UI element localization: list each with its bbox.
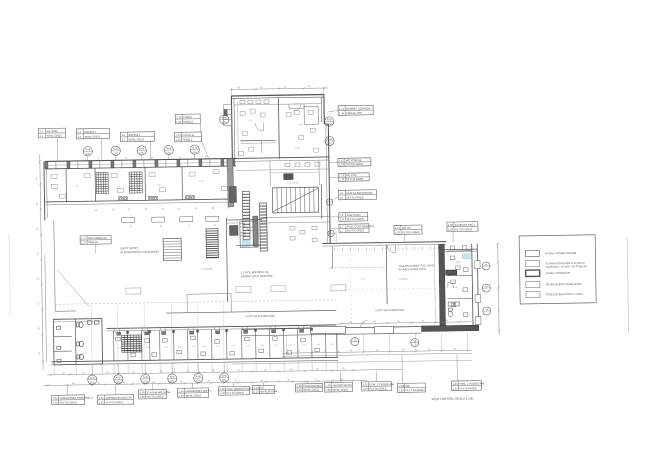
svg-text:1.7: 1.7 bbox=[340, 225, 344, 229]
door arc right wing bbox=[387, 245, 395, 253]
svg-text:(25): (25) bbox=[222, 121, 227, 124]
svg-text:KG: KG bbox=[260, 386, 264, 390]
svg-text:1.8: 1.8 bbox=[340, 217, 344, 221]
room number labels left wing bbox=[53, 117, 461, 295]
leader 1.23 bbox=[456, 354, 458, 381]
hall west wall bbox=[54, 220, 55, 311]
callout 1.5 bbox=[120, 132, 154, 142]
grid marker top 4 bbox=[164, 145, 173, 154]
svg-text:SALA OBSŁUGI: SALA OBSŁUGI bbox=[88, 236, 107, 240]
svg-text:N+B: N+B bbox=[116, 376, 121, 379]
svg-text:SIENNA x: SIENNA x bbox=[84, 130, 96, 134]
svg-text:(25): (25) bbox=[167, 151, 172, 154]
leader 1.19 bbox=[191, 383, 193, 388]
corridor north wall bbox=[166, 310, 336, 313]
vestibule bbox=[187, 294, 231, 313]
svg-text:1.8: 1.8 bbox=[340, 213, 344, 217]
legend row 3 bbox=[526, 270, 540, 277]
node circle hall bbox=[326, 199, 332, 205]
svg-text:1.5: 1.5 bbox=[122, 138, 126, 142]
window opening 1 bbox=[311, 326, 346, 334]
west stub wall right wing bbox=[331, 246, 333, 268]
svg-text:GABINET LEKARZA: GABINET LEKARZA bbox=[346, 106, 370, 110]
cyan highlight right bbox=[462, 254, 470, 259]
grid marker bottom 5 bbox=[194, 373, 203, 382]
svg-text:WC: WC bbox=[405, 384, 410, 388]
svg-text:(25): (25) bbox=[90, 381, 95, 384]
svg-text:WYKŁADZINA: WYKŁADZINA bbox=[260, 389, 277, 393]
grid marker bottom 1 bbox=[88, 375, 97, 384]
radiator row numbers bbox=[130, 225, 217, 228]
partition droppers bbox=[54, 361, 337, 375]
leader 1.15 bbox=[403, 234, 405, 242]
callout 1.12 bbox=[175, 114, 200, 124]
svg-text:WC POKOJE: WC POKOJE bbox=[346, 158, 362, 162]
svg-text:1.12: 1.12 bbox=[176, 120, 182, 124]
door arc bbox=[142, 328, 148, 334]
svg-text:N+B: N+B bbox=[327, 118, 332, 121]
bottom dimension line 1 bbox=[47, 369, 402, 375]
leader 1.17 bbox=[94, 244, 96, 253]
callout 1.30 bbox=[138, 389, 170, 399]
bottom band fixtures bbox=[116, 334, 320, 357]
stair core walls bbox=[253, 216, 258, 246]
svg-text:WYKŁ GRES: WYKŁ GRES bbox=[186, 393, 202, 397]
small rooms right bbox=[304, 106, 318, 124]
dark fixtures top of rooms bbox=[117, 329, 334, 335]
leader 1.32 bbox=[66, 385, 68, 395]
leader 1.9 bbox=[332, 197, 338, 200]
leader 1.17a bbox=[262, 382, 264, 385]
legend row 2 bbox=[525, 260, 539, 267]
callout 1.10b bbox=[338, 173, 369, 181]
leader 1.26 bbox=[339, 372, 341, 382]
left dimension line bbox=[40, 155, 43, 370]
door jambs bottom band bbox=[126, 328, 312, 334]
right wing lower dims bbox=[282, 350, 472, 353]
tiny dim numbers row in rooms bbox=[95, 208, 231, 212]
svg-text:(25): (25) bbox=[116, 381, 121, 384]
NE block east wall bbox=[472, 244, 473, 331]
grid circle east 3 bbox=[483, 307, 491, 315]
callout 1.24 bbox=[295, 384, 322, 392]
door arc NE bbox=[448, 282, 454, 288]
wall post bbox=[199, 159, 202, 166]
dark hatch block core bbox=[206, 229, 218, 258]
svg-text:W KONSTRUKCJI STALOWEJ: W KONSTRUKCJI STALOWEJ bbox=[120, 250, 159, 255]
svg-text:WYKŁ GRES: WYKŁ GRES bbox=[332, 388, 348, 392]
svg-text:1.25: 1.25 bbox=[362, 387, 368, 391]
svg-text:1.17: 1.17 bbox=[81, 240, 87, 244]
svg-text:1.16: 1.16 bbox=[448, 223, 454, 227]
svg-text:PŁYTKI GRES: PŁYTKI GRES bbox=[347, 228, 364, 232]
dark block west 1 bbox=[229, 186, 236, 202]
svg-text:1.16: 1.16 bbox=[448, 227, 454, 231]
svg-text:1.13: 1.13 bbox=[175, 133, 181, 137]
radiator bbox=[206, 216, 219, 221]
svg-text:(25): (25) bbox=[170, 380, 175, 383]
svg-text:1.23: 1.23 bbox=[452, 382, 458, 386]
droppers from south wall bbox=[287, 333, 468, 353]
svg-text:1.31: 1.31 bbox=[99, 400, 105, 404]
leader 1.10 bbox=[329, 161, 338, 163]
central wing partition bbox=[277, 98, 280, 159]
svg-text:POM. Z PODESTAMI: POM. Z PODESTAMI bbox=[459, 381, 484, 385]
svg-text:1.32: 1.32 bbox=[53, 401, 59, 405]
svg-text:KURTYNA POWIETRZNA: KURTYNA POWIETRZNA bbox=[245, 315, 274, 318]
leader drop to wall bbox=[335, 232, 337, 243]
svg-text:WYKŁ GRES: WYKŁ GRES bbox=[84, 134, 100, 138]
svg-text:1.24: 1.24 bbox=[398, 388, 404, 392]
main staircase bbox=[272, 187, 318, 213]
fixtures room 1.7 bbox=[240, 222, 317, 243]
svg-text:1.25: 1.25 bbox=[362, 382, 368, 386]
wall post bbox=[133, 160, 136, 167]
callout 1.13 bbox=[174, 132, 201, 142]
leader 1.18 bbox=[232, 382, 234, 386]
svg-text:N+B: N+B bbox=[90, 377, 95, 380]
south wall with windows bbox=[242, 327, 422, 330]
callout 1.16 bbox=[447, 222, 478, 232]
central wing north wall bbox=[231, 95, 324, 159]
svg-text:1.10: 1.10 bbox=[339, 162, 345, 166]
wall jog bbox=[289, 104, 304, 109]
svg-text:PRZESZKLENIA DRZWI / OKNA: PRZESZKLENIA DRZWI / OKNA bbox=[546, 293, 583, 297]
sink row south wall bbox=[285, 163, 320, 167]
svg-text:1.4: 1.4 bbox=[77, 135, 81, 139]
ticks under north wall bbox=[334, 246, 438, 251]
leader 1.30 bbox=[151, 384, 153, 390]
svg-text:PANELE: PANELE bbox=[183, 137, 193, 141]
svg-text:SIENNA z: SIENNA z bbox=[128, 133, 140, 137]
svg-text:WYKŁ GRES: WYKŁ GRES bbox=[129, 137, 145, 141]
grid circle east 1 bbox=[482, 262, 490, 270]
svg-text:ŚCIANY ISTNIEJĄCE: ŚCIANY ISTNIEJĄCE bbox=[546, 272, 571, 275]
room 1.7 walls bbox=[240, 221, 258, 247]
hatched wardrobe block 2 bbox=[129, 172, 142, 193]
svg-text:W UNE KOSZEM LUDZI: W UNE KOSZEM LUDZI bbox=[399, 268, 427, 271]
svg-text:N+B: N+B bbox=[196, 375, 201, 378]
interior dashes right wing bbox=[350, 246, 351, 330]
callout 1.15 wc bbox=[394, 225, 422, 234]
stair upper walls bbox=[269, 161, 271, 186]
legend box bbox=[519, 235, 596, 304]
svg-text:1.24: 1.24 bbox=[296, 384, 302, 388]
door arc bbox=[298, 325, 304, 331]
dim numbers above band bbox=[97, 156, 208, 160]
svg-text:1.10: 1.10 bbox=[339, 173, 345, 177]
door arc south bbox=[360, 320, 367, 327]
page edge artifact left bbox=[9, 233, 10, 315]
grid line up bbox=[116, 303, 119, 360]
NE radiator dark bbox=[446, 270, 457, 275]
svg-text:WC OS: WC OS bbox=[402, 226, 411, 230]
cyan highlight central bbox=[242, 240, 250, 246]
small stair west bbox=[163, 238, 181, 260]
callout 1.9 klatka bbox=[338, 190, 376, 200]
svg-text:PANELE: PANELE bbox=[88, 240, 98, 244]
misc walls near core bbox=[226, 218, 227, 302]
hall diagonal leader bbox=[58, 270, 90, 307]
svg-text:N+B: N+B bbox=[222, 375, 227, 378]
svg-text:(25): (25) bbox=[114, 152, 119, 155]
callout 1.26 bbox=[324, 382, 352, 392]
dark jamb west structure bbox=[224, 110, 227, 116]
leader 1.24b bbox=[401, 355, 403, 383]
grid marker wing a bbox=[220, 115, 229, 124]
right wing dim line bbox=[498, 243, 499, 335]
ceiling elements row bbox=[126, 285, 346, 294]
central wing south wall bbox=[235, 157, 329, 158]
svg-text:PŁYTKI GRES: PŁYTKI GRES bbox=[60, 400, 77, 404]
grid marker wing c bbox=[325, 136, 334, 145]
leader 1.31 bbox=[114, 384, 116, 394]
grid line up bbox=[222, 302, 225, 359]
legend row 4 bbox=[526, 281, 540, 288]
svg-text:GARDEROBY PERSONELU: GARDEROBY PERSONELU bbox=[60, 396, 93, 401]
svg-text:PŁYTKI GRES: PŁYTKI GRES bbox=[346, 177, 363, 181]
svg-text:1.9: 1.9 bbox=[339, 196, 343, 200]
NE fixture cluster bbox=[448, 302, 459, 317]
svg-text:1.10: 1.10 bbox=[339, 177, 345, 181]
wall post bbox=[221, 159, 224, 166]
svg-text:1.26: 1.26 bbox=[325, 388, 331, 392]
svg-text:PANELE: PANELE bbox=[183, 119, 193, 123]
left wing interior wall bbox=[46, 199, 237, 202]
door arc bbox=[188, 327, 194, 333]
legend row 5 bbox=[526, 291, 540, 298]
window bumps east bbox=[474, 261, 480, 269]
interior dim line right wing bbox=[337, 322, 471, 324]
svg-text:(25): (25) bbox=[143, 380, 148, 383]
svg-text:WYKŁ GRES: WYKŁ GRES bbox=[303, 388, 319, 392]
svg-text:PŁYTKI GRES: PŁYTKI GRES bbox=[347, 217, 364, 221]
leader 1.1 bbox=[57, 138, 59, 161]
svg-text:N+B: N+B bbox=[170, 375, 175, 378]
svg-text:h=295/14: h=295/14 bbox=[399, 279, 409, 281]
svg-text:1.10: 1.10 bbox=[339, 158, 345, 162]
block mid wall bbox=[74, 319, 77, 364]
door arc bbox=[242, 326, 248, 332]
node circle corner bbox=[328, 230, 334, 236]
callout 1.23 bbox=[451, 381, 484, 391]
door arc bbox=[314, 325, 320, 331]
svg-text:PŁYTKI GRES: PŁYTKI GRES bbox=[455, 227, 472, 231]
svg-text:(25): (25) bbox=[140, 152, 145, 155]
svg-text:PRZESZKLENIA STAŁE OKIEN: PRZESZKLENIA STAŁE OKIEN bbox=[546, 283, 582, 287]
grid marker bottom 4 bbox=[168, 374, 177, 383]
door arc bbox=[160, 328, 166, 334]
leader 1.7 bbox=[330, 227, 339, 229]
door arc bbox=[270, 326, 276, 332]
furniture in north rooms bbox=[51, 170, 227, 199]
mid dim line right bbox=[232, 360, 472, 364]
stall divider 2 bbox=[54, 350, 72, 352]
callout 1.25 bbox=[361, 381, 394, 391]
leader 1.24 bbox=[306, 381, 308, 383]
wall post bbox=[111, 161, 114, 168]
sink fixtures on interior wall bbox=[118, 196, 194, 201]
ramp hatch A bbox=[242, 191, 250, 239]
svg-text:1.17: 1.17 bbox=[81, 236, 87, 240]
svg-text:PRZEDSIONEK: PRZEDSIONEK bbox=[303, 384, 322, 388]
wall post bbox=[232, 159, 235, 166]
bottom dimension line 2 bbox=[43, 380, 367, 385]
svg-text:PŁYTKI GRES: PŁYTKI GRES bbox=[369, 386, 386, 390]
svg-text:h=305/345: h=305/345 bbox=[201, 268, 214, 271]
hatched wardrobe block 1 bbox=[96, 172, 108, 193]
wall post bbox=[177, 160, 180, 167]
leader 1.8 bbox=[330, 216, 339, 218]
svg-text:1.23: 1.23 bbox=[452, 386, 458, 390]
grid marker bottom 3 bbox=[141, 374, 150, 383]
svg-text:1.26: 1.26 bbox=[325, 383, 331, 387]
stall divider 1 bbox=[54, 336, 72, 338]
window opening 2 bbox=[375, 326, 394, 333]
svg-text:1.5: 1.5 bbox=[121, 133, 125, 137]
svg-text:(25): (25) bbox=[327, 142, 332, 145]
dimension numbers bbox=[62, 368, 345, 385]
grid circle east 2 bbox=[482, 284, 490, 292]
svg-text:ŁAZIENKA PACJ.: ŁAZIENKA PACJ. bbox=[455, 223, 476, 227]
svg-text:PŁYTKI GRES: PŁYTKI GRES bbox=[227, 391, 244, 395]
leader 1.5 bbox=[150, 141, 152, 159]
grid line up bbox=[196, 302, 199, 359]
bottom outer wall bbox=[52, 357, 338, 362]
svg-text:POM. Z PODESTAMI: POM. Z PODESTAMI bbox=[369, 382, 394, 386]
door arc wing2 bbox=[294, 104, 301, 111]
svg-text:1.15: 1.15 bbox=[395, 226, 401, 230]
sink row north wall wing bbox=[240, 100, 269, 104]
svg-text:1.31: 1.31 bbox=[99, 396, 105, 400]
left dim vertical numbers bbox=[36, 176, 41, 355]
svg-text:(25): (25) bbox=[193, 151, 198, 154]
svg-text:KORYTARZ: KORYTARZ bbox=[347, 213, 361, 217]
svg-text:1.30: 1.30 bbox=[140, 395, 146, 399]
svg-text:1.15: 1.15 bbox=[395, 230, 401, 234]
left wing west wall bbox=[43, 161, 46, 220]
left wing north wall band bbox=[45, 158, 236, 168]
svg-text:WYKŁ GRES: WYKŁ GRES bbox=[46, 134, 62, 138]
grid line up bbox=[90, 304, 93, 361]
thick wall near stair core bbox=[227, 158, 233, 206]
NE block fixtures bbox=[450, 246, 469, 317]
grid line up bbox=[143, 303, 146, 360]
svg-text:N+B: N+B bbox=[139, 147, 144, 150]
grid marker top 3 bbox=[137, 146, 146, 155]
svg-text:1.1: 1.1 bbox=[39, 129, 43, 133]
interior vertical dim bbox=[434, 244, 435, 322]
svg-text:1.19: 1.19 bbox=[178, 389, 184, 393]
svg-text:1.9: 1.9 bbox=[339, 191, 343, 195]
callout 1.31 bbox=[98, 395, 134, 405]
svg-text:PŁYTKI GRES: PŁYTKI GRES bbox=[346, 162, 363, 166]
page artifact right bbox=[627, 237, 629, 333]
grid circle south b bbox=[411, 339, 419, 347]
svg-text:1.13: 1.13 bbox=[176, 138, 182, 142]
ramp hatch B bbox=[260, 203, 268, 251]
grid line up bbox=[170, 302, 173, 359]
svg-text:N+B: N+B bbox=[192, 147, 197, 150]
svg-text:PŁYTKI GRES: PŁYTKI GRES bbox=[402, 230, 419, 234]
tiny room numbers bottom band bbox=[118, 344, 335, 349]
callout 1.18 bbox=[218, 386, 254, 395]
svg-text:ŚCIANY PROJEKTOWANE: ŚCIANY PROJEKTOWANE bbox=[545, 252, 576, 255]
callout 1.11 gabinet bbox=[338, 105, 373, 115]
callout 1.17a bbox=[252, 385, 277, 393]
wing west dim line bbox=[236, 101, 239, 159]
right wing south wall dark bbox=[422, 325, 479, 331]
svg-text:1.11: 1.11 bbox=[339, 107, 344, 111]
svg-text:POM. ADMINISTRACJI: POM. ADMINISTRACJI bbox=[226, 387, 253, 391]
svg-text:1.12: 1.12 bbox=[176, 115, 182, 119]
callout 1.4 sien bbox=[76, 128, 109, 139]
landing under stair bbox=[262, 216, 330, 217]
callout 1.1 wejscie bbox=[38, 128, 65, 138]
svg-text:KURTYNA POWIETRZNA: KURTYNA POWIETRZNA bbox=[375, 309, 404, 312]
svg-text:h=3.05min: h=3.05min bbox=[287, 181, 299, 184]
svg-text:POM. GOSPODARCZE: POM. GOSPODARCZE bbox=[347, 224, 375, 228]
partition walls in north rooms bbox=[65, 169, 68, 202]
grid marker top 5 bbox=[190, 145, 199, 154]
radiator bbox=[180, 217, 193, 222]
bottom-left room block outer bbox=[53, 319, 102, 365]
bottom band corridor wall bbox=[107, 325, 337, 329]
svg-text:1.4: 1.4 bbox=[77, 130, 81, 134]
NE block thick west wall bbox=[439, 244, 446, 331]
toilets on mid wall bbox=[56, 321, 99, 363]
svg-text:N+B: N+B bbox=[327, 138, 332, 141]
svg-text:WC POK.: WC POK. bbox=[346, 173, 358, 177]
hatched stair block bottom band bbox=[122, 335, 142, 352]
central wing east wall bbox=[328, 124, 330, 243]
svg-text:N+B: N+B bbox=[222, 117, 227, 120]
leader 1.13 bbox=[202, 141, 209, 159]
callout 1.17 sala bbox=[80, 235, 111, 244]
svg-text:(25): (25) bbox=[222, 379, 227, 382]
callout 1.19 bbox=[177, 388, 211, 398]
leader 1.12 bbox=[199, 123, 201, 132]
door arc bbox=[114, 328, 120, 334]
wall post bbox=[45, 162, 48, 169]
wall post bbox=[67, 161, 70, 168]
svg-text:(25): (25) bbox=[86, 153, 91, 156]
leader 1.11 bbox=[328, 110, 338, 112]
callout 1.32 bbox=[52, 395, 94, 405]
svg-text:OŚWIETLONY SUFITEM: OŚWIETLONY SUFITEM bbox=[241, 273, 273, 279]
svg-text:PŁYTKI GRES: PŁYTKI GRES bbox=[346, 195, 363, 199]
door arc bbox=[214, 327, 220, 333]
svg-text:1.11: 1.11 bbox=[339, 111, 344, 115]
svg-text:1.30: 1.30 bbox=[139, 390, 145, 394]
callout 1.8 bbox=[339, 212, 368, 221]
svg-text:PŁYTKI GRES: PŁYTKI GRES bbox=[106, 400, 123, 404]
leader 1.16 bbox=[452, 232, 454, 242]
legend row 1 bbox=[525, 250, 539, 257]
NE block partitions bbox=[447, 250, 472, 252]
bottom band partitions bbox=[114, 327, 337, 360]
svg-text:N+B: N+B bbox=[85, 148, 90, 151]
grid marker wing b bbox=[325, 117, 334, 126]
grid marker bottom 2 bbox=[114, 375, 123, 384]
grid marker top 2 bbox=[111, 146, 120, 155]
west boundary lower bbox=[45, 254, 47, 361]
west attached stair structure bbox=[224, 104, 232, 125]
right wing interior partition bbox=[385, 245, 388, 304]
svg-text:ZMYWALNIA NACZYŃ: ZMYWALNIA NACZYŃ bbox=[106, 395, 133, 399]
svg-text:PANELE PCV: PANELE PCV bbox=[346, 111, 362, 115]
leader 1.10b bbox=[329, 176, 338, 178]
